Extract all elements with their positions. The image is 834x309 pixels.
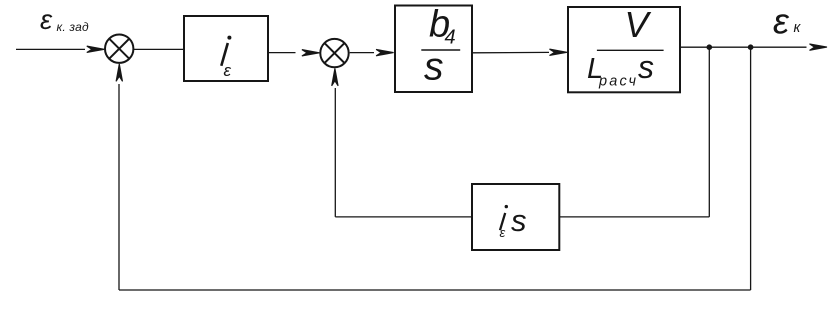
- wire output: [681, 46, 807, 48]
- arrowhead into block b4/s: [376, 49, 394, 55]
- wire up into S1: [118, 84, 120, 290]
- node label εк (output signal): [773, 0, 802, 41]
- arrowhead output: [810, 44, 828, 50]
- svg-text:ε: ε: [40, 4, 53, 35]
- node label εк.зад (input signal): [40, 4, 89, 35]
- wire up into S2: [334, 88, 336, 217]
- svg-text:ε: ε: [224, 61, 232, 80]
- wire inner feedback right segment: [560, 216, 710, 218]
- arrowhead up into S1 bottom: [116, 64, 122, 82]
- junction node A (inner feedback tap): [707, 44, 713, 50]
- arrowhead into block V/(L s): [550, 49, 568, 55]
- arrowhead up into S2 bottom: [332, 68, 338, 86]
- wire inner feedback left segment: [335, 216, 472, 218]
- svg-text:s: s: [424, 45, 444, 88]
- svg-text:s: s: [638, 49, 654, 85]
- svg-text:расч: расч: [598, 73, 638, 89]
- svg-text:V: V: [625, 4, 652, 45]
- svg-text:ε: ε: [773, 0, 790, 41]
- block iε s (derivative feedback): [472, 184, 559, 250]
- block V/(Lрасч s): [568, 7, 680, 92]
- block b4/s (integrator): [395, 6, 472, 93]
- wire outer feedback bottom: [119, 289, 751, 291]
- wire input to summing junction S1: [16, 48, 85, 50]
- arrowhead into S1: [87, 46, 105, 52]
- wire node B down (outer feedback): [750, 47, 752, 290]
- svg-text:к. зад: к. зад: [57, 20, 89, 34]
- wire block iε to summing junction S2: [269, 52, 296, 54]
- summing junction S2: [320, 39, 348, 67]
- wire S2 to block b4/s: [350, 52, 374, 54]
- svg-text:к: к: [794, 20, 802, 36]
- arrowhead into S2: [302, 50, 320, 56]
- wire S1 to block iε: [134, 48, 184, 50]
- wire block b4/s to block V/(L s): [473, 51, 549, 53]
- wire node A down: [708, 47, 710, 217]
- summing junction S1: [105, 35, 133, 63]
- block iε (transfer function): [184, 16, 268, 81]
- junction node B (outer feedback tap): [748, 44, 754, 50]
- svg-text:s: s: [511, 203, 527, 238]
- svg-text:4: 4: [445, 27, 456, 49]
